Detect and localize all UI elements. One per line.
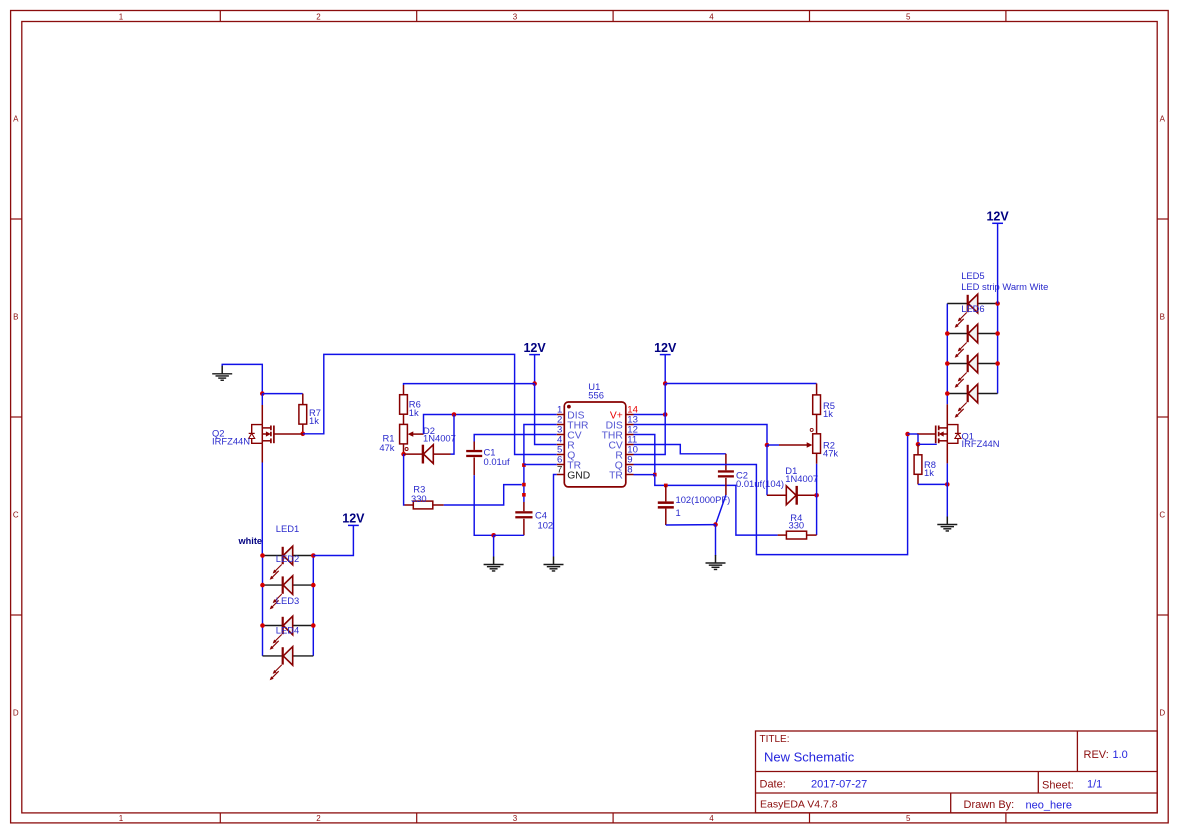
svg-text:1k: 1k xyxy=(924,467,934,478)
svg-text:B: B xyxy=(1160,313,1165,322)
svg-text:EasyEDA V4.7.8: EasyEDA V4.7.8 xyxy=(760,798,838,810)
svg-text:12V: 12V xyxy=(523,341,546,355)
svg-text:0.01uf: 0.01uf xyxy=(484,456,510,467)
svg-text:7: 7 xyxy=(557,464,562,475)
svg-text:LED4: LED4 xyxy=(276,624,299,635)
svg-text:3: 3 xyxy=(513,12,518,21)
svg-text:102(1000PF): 102(1000PF) xyxy=(676,494,731,505)
svg-text:330: 330 xyxy=(789,520,805,531)
svg-text:102: 102 xyxy=(538,519,554,530)
svg-text:New Schematic: New Schematic xyxy=(764,750,855,765)
svg-text:330: 330 xyxy=(411,493,427,504)
svg-text:A: A xyxy=(13,115,19,124)
svg-text:LED2: LED2 xyxy=(276,553,299,564)
svg-text:TR: TR xyxy=(609,470,623,481)
svg-text:REV:: REV: xyxy=(1084,749,1109,761)
svg-text:C: C xyxy=(1159,511,1165,520)
svg-text:LED strip Warm Wite: LED strip Warm Wite xyxy=(961,281,1048,292)
svg-text:2: 2 xyxy=(316,12,321,21)
svg-text:D: D xyxy=(1159,709,1165,718)
svg-text:0.01uf(104): 0.01uf(104) xyxy=(736,478,784,489)
svg-text:556: 556 xyxy=(588,389,604,400)
svg-text:3: 3 xyxy=(513,814,518,823)
svg-text:1: 1 xyxy=(119,814,124,823)
svg-text:1k: 1k xyxy=(409,407,419,418)
svg-text:TITLE:: TITLE: xyxy=(760,734,790,745)
svg-text:8: 8 xyxy=(627,464,632,475)
svg-text:white: white xyxy=(238,536,262,546)
svg-text:A: A xyxy=(1160,115,1166,124)
svg-text:LED5: LED5 xyxy=(961,270,984,281)
svg-text:LED1: LED1 xyxy=(276,523,299,534)
svg-text:1N4007: 1N4007 xyxy=(785,473,818,484)
svg-text:5: 5 xyxy=(906,814,911,823)
svg-text:2: 2 xyxy=(316,814,321,823)
svg-text:B: B xyxy=(13,313,18,322)
svg-text:1: 1 xyxy=(119,12,124,21)
svg-text:Date:: Date: xyxy=(760,779,786,791)
svg-text:2017-07-27: 2017-07-27 xyxy=(811,779,867,791)
svg-text:1k: 1k xyxy=(309,415,319,426)
svg-text:4: 4 xyxy=(709,12,714,21)
svg-text:IRFZ44N: IRFZ44N xyxy=(962,438,1000,449)
svg-text:12V: 12V xyxy=(986,210,1009,224)
svg-text:5: 5 xyxy=(906,12,911,21)
svg-text:1N4007: 1N4007 xyxy=(423,432,456,443)
svg-text:Sheet:: Sheet: xyxy=(1042,779,1074,791)
svg-text:Drawn By:: Drawn By: xyxy=(964,799,1015,811)
svg-text:IRFZ44N: IRFZ44N xyxy=(212,435,250,446)
svg-text:47k: 47k xyxy=(823,447,838,458)
svg-text:1: 1 xyxy=(676,507,681,518)
svg-text:LED6: LED6 xyxy=(961,303,984,314)
svg-text:1.0: 1.0 xyxy=(1113,749,1128,761)
svg-text:LED3: LED3 xyxy=(276,595,299,606)
svg-text:D: D xyxy=(13,709,19,718)
svg-text:1k: 1k xyxy=(823,408,833,419)
svg-text:1/1: 1/1 xyxy=(1087,779,1102,791)
svg-text:neo_here: neo_here xyxy=(1026,799,1073,811)
svg-text:C: C xyxy=(13,511,19,520)
svg-text:47k: 47k xyxy=(379,442,394,453)
svg-text:12V: 12V xyxy=(342,512,365,526)
svg-text:GND: GND xyxy=(567,470,590,481)
svg-text:4: 4 xyxy=(709,814,714,823)
svg-text:12V: 12V xyxy=(654,341,677,355)
